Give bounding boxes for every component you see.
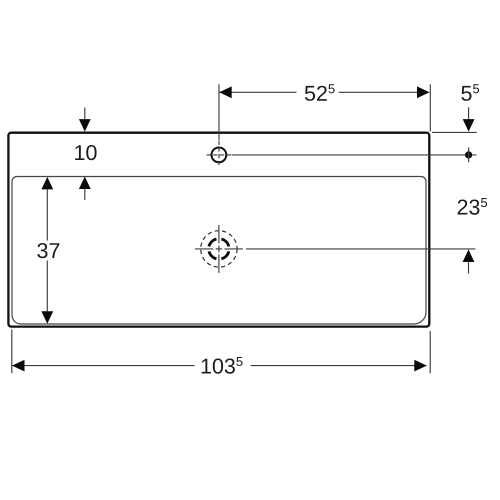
- dim 52.5 line: [220, 91, 297, 93]
- faucet hole centerline vertical: [218, 141, 220, 168]
- dim 103.5 extension line left: [11, 330, 13, 374]
- dim 10 label: [75, 145, 96, 160]
- dim 5.5 dot tick: [468, 147, 470, 162]
- faucet hole centerline horizontal: [207, 154, 232, 156]
- dim 103.5 arrow left: [12, 360, 25, 372]
- dim 37 line upper: [46, 189, 48, 241]
- dim 52.5 arrow right: [417, 86, 430, 98]
- dim 10 arrow up: [79, 177, 91, 190]
- dim 103.5 extension line right: [429, 331, 431, 373]
- top edge extension line: [432, 131, 477, 133]
- dim 52.5 extension line left (above faucet hole): [218, 84, 220, 140]
- dim 37 line lower: [46, 261, 48, 313]
- dim 52.5 extension line right: [429, 84, 431, 131]
- basin outer outline: [8, 133, 429, 327]
- dim 52.5 label: [305, 84, 335, 101]
- dim 23.5 label: [458, 198, 488, 215]
- dim 37 arrow down: [41, 311, 53, 324]
- dim 5.5 line: [468, 107, 470, 120]
- dim 5.5 label: [461, 84, 479, 101]
- dim 23.5 arrow up: [463, 250, 475, 263]
- drain hole outer dashed circle: [201, 231, 237, 267]
- basin inner rim: [12, 177, 426, 325]
- dim 37 label: [37, 243, 59, 258]
- dim 103.5 label: [202, 357, 243, 374]
- drain hole centerline vertical: [218, 225, 220, 243]
- dim 103.5 line: [12, 365, 194, 367]
- drain hole centerline horizontal: [195, 248, 213, 250]
- faucet hole: [212, 148, 227, 163]
- dim 5.5 arrow down: [463, 119, 475, 132]
- dim 37 arrow up: [41, 177, 53, 190]
- dim 52.5 arrow left: [219, 86, 232, 98]
- drain hole inner circle arcs: [209, 239, 229, 259]
- dim 5.5 end dot: [465, 151, 472, 158]
- dim 103.5 arrow right: [414, 360, 427, 372]
- faucet hole axis line: [232, 154, 477, 156]
- dim 10 arrow down: [84, 108, 86, 121]
- drain hole axis line: [246, 248, 475, 250]
